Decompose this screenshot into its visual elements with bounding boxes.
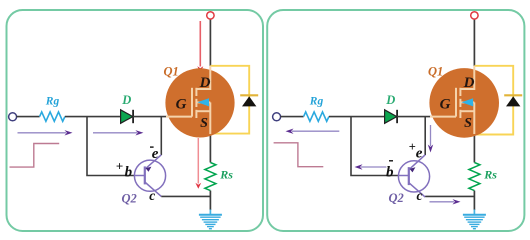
svg-text:G: G [440,97,451,113]
svg-text:D: D [463,75,475,91]
svg-text:D: D [199,75,211,91]
svg-text:c: c [149,188,155,203]
svg-text:Q1: Q1 [428,65,443,79]
svg-text:D: D [385,93,395,107]
svg-text:+: + [116,159,123,174]
svg-text:Rs: Rs [219,167,233,181]
svg-text:D: D [121,93,131,107]
svg-text:Rg: Rg [309,96,324,108]
svg-text:Rg: Rg [45,96,60,108]
svg-text:e: e [152,146,159,162]
svg-text:e: e [416,146,423,162]
svg-text:+: + [409,140,416,154]
svg-text:c: c [417,188,423,203]
svg-text:Rs: Rs [483,167,497,181]
svg-text:G: G [176,97,187,113]
svg-text:Q2: Q2 [389,191,404,205]
svg-text:S: S [464,116,472,131]
svg-text:b: b [125,165,133,181]
svg-text:Q1: Q1 [164,65,179,79]
svg-text:b: b [386,165,394,181]
svg-text:S: S [200,116,208,131]
svg-text:Q2: Q2 [122,191,137,205]
